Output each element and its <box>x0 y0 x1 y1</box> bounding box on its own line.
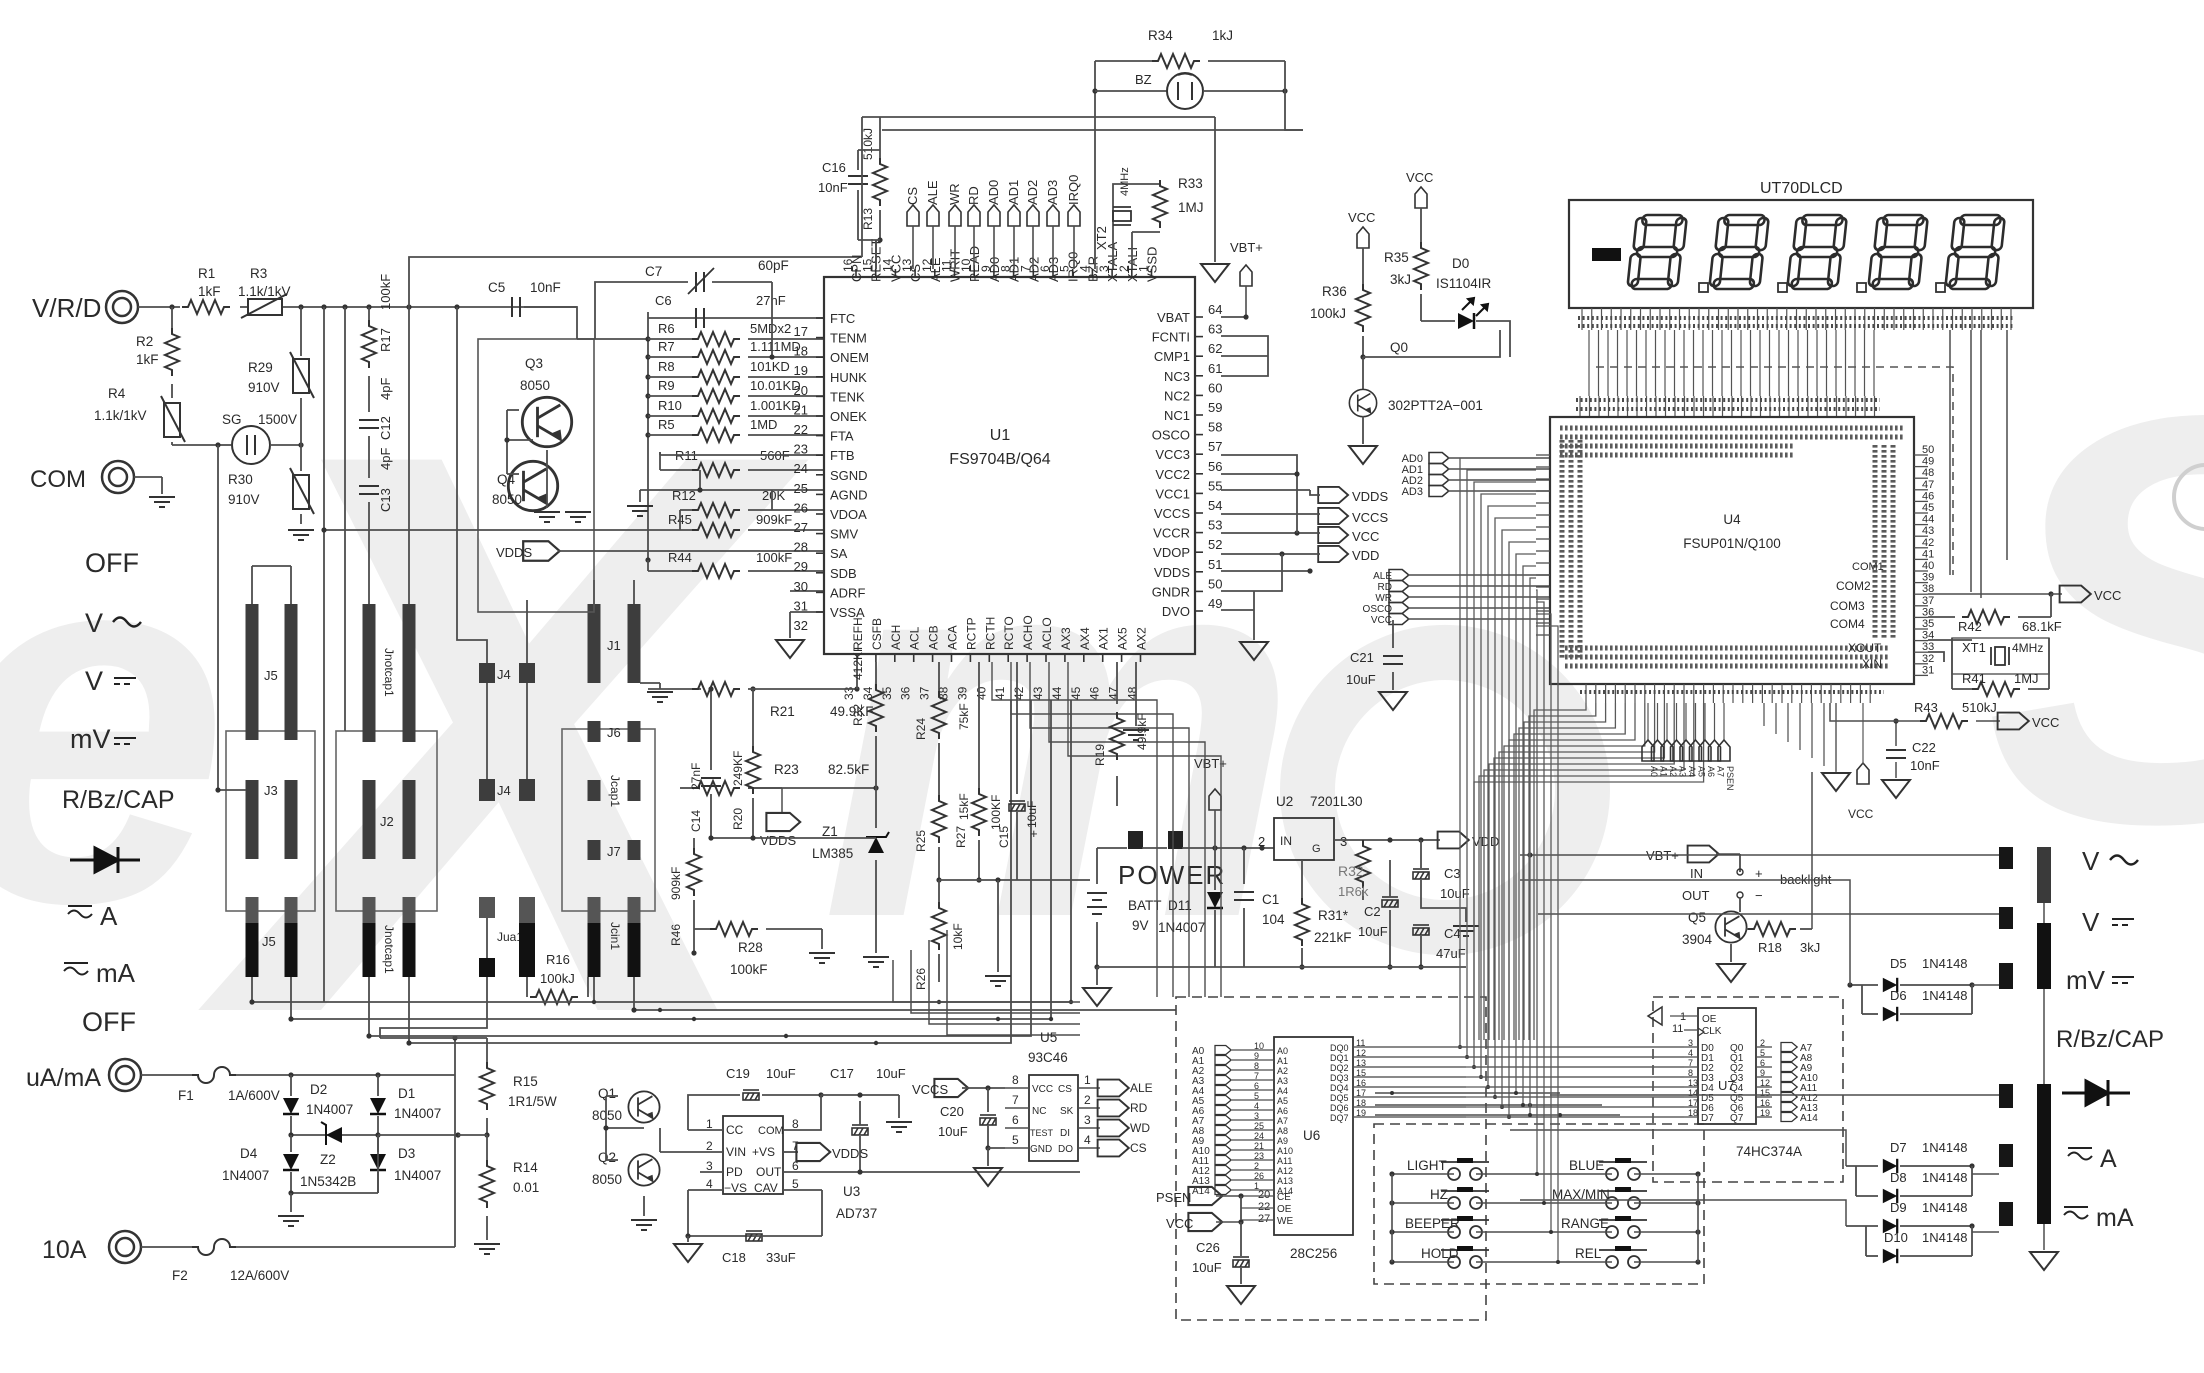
svg-text:412KF: 412KF <box>851 645 865 680</box>
U7 pin D3 <box>1684 1076 1698 1078</box>
svg-text:WD: WD <box>1130 1121 1150 1135</box>
wire DVO <box>1221 609 1254 611</box>
flag VCC mid2 <box>1415 187 1427 208</box>
U1 pin 27 VDOA <box>816 513 824 515</box>
switch wafer outline J6/Jcap1/J7 group <box>562 729 655 911</box>
bus rail 1 <box>252 700 1071 1002</box>
flag VDD power <box>1438 832 1469 849</box>
svg-text:28C256: 28C256 <box>1290 1246 1337 1261</box>
dashed box around U7 <box>1653 997 1843 1182</box>
svg-text:D9: D9 <box>1890 1200 1907 1215</box>
svg-text:2: 2 <box>706 1139 713 1153</box>
flags AD0-AD3 <box>1429 453 1449 464</box>
svg-text:J2: J2 <box>380 814 394 829</box>
svg-text:VDDS: VDDS <box>832 1146 868 1161</box>
svg-text:10nF: 10nF <box>530 280 561 295</box>
resistor R45 <box>660 529 692 531</box>
svg-text:D0: D0 <box>1452 256 1469 271</box>
svg-text:45: 45 <box>1069 686 1083 700</box>
LCD body <box>1569 200 2033 308</box>
svg-text:17: 17 <box>1688 1098 1698 1108</box>
svg-text:3kJ: 3kJ <box>1390 272 1411 287</box>
svg-text:REL: REL <box>1575 1246 1602 1261</box>
svg-text:A2: A2 <box>1277 1066 1288 1076</box>
wire XT1 loop <box>1951 638 1953 689</box>
svg-text:DO: DO <box>1058 1144 1073 1155</box>
wire drop x345 <box>344 307 346 731</box>
svg-text:32: 32 <box>1922 653 1934 665</box>
svg-text:VDDS: VDDS <box>1154 565 1190 580</box>
resistor R33 <box>1153 180 1167 228</box>
svg-text:C5: C5 <box>488 280 505 295</box>
wire button row <box>1392 1231 1454 1233</box>
svg-text:11: 11 <box>1672 1023 1683 1035</box>
U7 pin Q1 <box>1756 1056 1772 1058</box>
svg-text:40: 40 <box>974 686 988 700</box>
U1 pin 54 VCCS <box>1195 512 1203 514</box>
svg-text:VCC: VCC <box>1848 807 1874 821</box>
svg-text:7201L30: 7201L30 <box>1310 794 1363 809</box>
U1 pin 24 FTB <box>816 454 824 456</box>
bus rail 2 <box>291 700 1051 1019</box>
svg-text:G: G <box>1312 843 1321 855</box>
svg-text:FTC: FTC <box>830 311 855 326</box>
svg-text:AD3: AD3 <box>1402 486 1423 498</box>
svg-text:WE: WE <box>1277 1216 1293 1227</box>
svg-text:VCCS: VCCS <box>1154 506 1190 521</box>
flag ALE <box>927 205 939 226</box>
varistor R30 <box>300 445 302 471</box>
svg-text:30: 30 <box>794 579 808 594</box>
U1 pin 26 AGND <box>816 493 824 495</box>
svg-text:VBT+: VBT+ <box>1230 240 1263 255</box>
svg-text:FSUP01N/Q100: FSUP01N/Q100 <box>1683 536 1781 551</box>
wire CE OE link <box>1240 1196 1242 1220</box>
resistor R46 <box>693 838 695 852</box>
svg-text:R41: R41 <box>1962 671 1986 686</box>
svg-text:C21: C21 <box>1350 650 1374 665</box>
svg-text:56: 56 <box>1208 459 1222 474</box>
svg-text:10uF: 10uF <box>876 1066 906 1081</box>
U1 pin 64 VBAT <box>1195 316 1203 318</box>
resistor R27 <box>978 662 980 792</box>
flag OE left arrow <box>1648 1007 1662 1025</box>
svg-text:62: 62 <box>1208 341 1222 356</box>
ground right bars <box>2030 1252 2058 1270</box>
resistor R28 <box>694 928 710 930</box>
svg-text:1N4007: 1N4007 <box>394 1168 441 1183</box>
svg-text:mA: mA <box>2096 1204 2134 1232</box>
flag VDDS to SA <box>523 541 559 561</box>
U1 pin 23 FTA <box>816 435 824 437</box>
svg-text:VCC3: VCC3 <box>1155 447 1190 462</box>
crystal XT2 <box>1112 200 1114 269</box>
svg-text:R6: R6 <box>658 321 675 336</box>
flag PSEN <box>1188 1187 1222 1205</box>
svg-text:R/Bz/CAP: R/Bz/CAP <box>2056 1026 2164 1053</box>
U1 pin 9 AD0 <box>993 269 995 277</box>
svg-text:R29: R29 <box>248 360 273 375</box>
svg-text:XOUT: XOUT <box>1848 641 1882 655</box>
U1 pin 59 NC1 <box>1195 414 1203 416</box>
wire long bus rows DQ <box>1365 1046 1684 1048</box>
LCD digit 4 <box>1868 215 1928 289</box>
U1 pin 25 SGND <box>816 474 824 476</box>
svg-text:VDOP: VDOP <box>1153 545 1190 560</box>
svg-text:75kF: 75kF <box>957 703 971 730</box>
resistor R20 <box>752 689 754 750</box>
svg-text:Jnotcap1: Jnotcap1 <box>382 925 396 974</box>
wire button row <box>1392 1261 1454 1263</box>
svg-text:HZ: HZ <box>1430 1187 1448 1202</box>
right switch long bars <box>2037 847 2051 903</box>
svg-text:Z1: Z1 <box>822 824 838 839</box>
svg-text:60pF: 60pF <box>758 258 789 273</box>
wire LCD right drops <box>1970 330 1972 592</box>
U4 bottom comb <box>1585 684 1587 703</box>
svg-text:910V: 910V <box>248 380 280 395</box>
U1 pin 6 AD3 <box>1052 269 1054 277</box>
svg-text:23: 23 <box>1254 1151 1264 1161</box>
svg-text:C13: C13 <box>378 488 393 512</box>
rail junction dots <box>592 1000 596 1004</box>
svg-text:0.01: 0.01 <box>513 1180 539 1195</box>
svg-text:5: 5 <box>792 1177 799 1191</box>
bus rail 4 <box>409 700 1011 1043</box>
U7 pin D6 <box>1684 1106 1698 1108</box>
svg-text:DQ5: DQ5 <box>1330 1093 1349 1103</box>
svg-text:VCC: VCC <box>2032 715 2059 730</box>
svg-text:C15: C15 <box>997 826 1011 848</box>
svg-text:Q2: Q2 <box>598 1150 616 1165</box>
svg-text:14: 14 <box>1688 1088 1698 1098</box>
svg-text:12: 12 <box>1356 1048 1366 1058</box>
U7 pin D1 <box>1684 1056 1698 1058</box>
svg-text:AD737: AD737 <box>836 1206 877 1221</box>
svg-text:221kF: 221kF <box>1314 930 1352 945</box>
svg-text:1.1k/1kV: 1.1k/1kV <box>238 284 291 299</box>
svg-text:Q3: Q3 <box>525 356 543 371</box>
ground AGND <box>640 489 700 491</box>
svg-text:68.1kF: 68.1kF <box>2022 619 2062 634</box>
svg-text:15kF: 15kF <box>957 793 971 820</box>
svg-text:R15: R15 <box>513 1074 538 1089</box>
svg-text:53: 53 <box>1208 518 1222 533</box>
svg-text:+: + <box>1755 866 1763 881</box>
svg-text:A6: A6 <box>1706 766 1716 777</box>
wire D9 feed <box>1520 1200 1846 1226</box>
power switch contacts <box>1128 831 1143 849</box>
svg-text:5: 5 <box>1760 1048 1765 1058</box>
svg-text:A10: A10 <box>1277 1146 1293 1156</box>
svg-text:R32: R32 <box>1338 863 1364 879</box>
flag VDDS right <box>1221 570 1310 572</box>
box around Q3/Q4 <box>478 339 594 612</box>
resistor R36 <box>1362 248 1364 288</box>
svg-text:CE: CE <box>1277 1192 1291 1203</box>
U5 pin stubs <box>1005 1087 1029 1089</box>
svg-text:100kJ: 100kJ <box>1310 306 1346 321</box>
capacitor C20 <box>987 1088 989 1112</box>
wire Q3-Q4 link <box>507 409 519 411</box>
svg-text:U2: U2 <box>1276 794 1293 809</box>
svg-text:1500V: 1500V <box>258 412 297 427</box>
wire COM to ground <box>134 476 162 478</box>
svg-text:AD2: AD2 <box>1025 180 1040 205</box>
svg-text:R2: R2 <box>136 334 153 349</box>
svg-text:37: 37 <box>1922 595 1934 607</box>
svg-text:F2: F2 <box>172 1268 188 1283</box>
svg-text:VCC: VCC <box>2094 588 2121 603</box>
svg-text:A0: A0 <box>1649 766 1659 777</box>
svg-text:J7: J7 <box>607 844 621 859</box>
svg-text:OFF: OFF <box>85 548 139 578</box>
U1 pin 42 ACHO <box>1026 654 1028 662</box>
svg-text:PD: PD <box>726 1165 743 1179</box>
svg-text:510kJ: 510kJ <box>861 128 875 160</box>
svg-text:PSEN: PSEN <box>1725 766 1735 791</box>
U1 pin 30 SDB <box>816 572 824 574</box>
svg-text:Z2: Z2 <box>320 1152 336 1167</box>
svg-text:41: 41 <box>993 686 1007 700</box>
svg-text:NC: NC <box>1032 1106 1046 1117</box>
svg-text:OSCO: OSCO <box>1363 604 1393 615</box>
bus rail 3 <box>369 700 1031 1036</box>
ground under bridge <box>290 1193 292 1212</box>
svg-text:XT2: XT2 <box>1094 226 1109 250</box>
svg-text:1A/600V: 1A/600V <box>228 1088 280 1103</box>
buzzer BZ <box>1095 90 1167 92</box>
svg-text:R5: R5 <box>658 417 675 432</box>
svg-text:ACLO: ACLO <box>1040 617 1054 650</box>
ground near XTALI <box>1201 264 1229 282</box>
svg-text:3904: 3904 <box>1682 932 1713 947</box>
wire D0 to right <box>1476 321 1510 357</box>
svg-text:4MHz: 4MHz <box>2012 641 2043 655</box>
ground under Q5 <box>1730 944 1732 962</box>
dashed box around U6 <box>1176 997 1486 1320</box>
flag CS <box>907 205 919 226</box>
svg-text:GNDR: GNDR <box>1152 584 1190 599</box>
svg-text:OE: OE <box>1702 1014 1717 1025</box>
resistor R8 <box>645 374 650 379</box>
svg-text:A3: A3 <box>1277 1076 1288 1086</box>
svg-text:SK: SK <box>1060 1106 1074 1117</box>
svg-text:IS1104IR: IS1104IR <box>1436 276 1492 291</box>
svg-text:49: 49 <box>1922 456 1934 468</box>
wire bridge bottom <box>291 1192 378 1194</box>
wire long bar link <box>2043 903 2045 923</box>
svg-text:27: 27 <box>794 520 808 535</box>
svg-text:A13: A13 <box>1277 1176 1293 1186</box>
flag VCC mid1 <box>1357 227 1369 248</box>
decorative watermark <box>0 286 2204 1180</box>
flags ALE RD WD CS at U5 <box>1098 1080 1129 1097</box>
wire reset to pin15 <box>858 239 880 241</box>
svg-text:10uF: 10uF <box>766 1066 796 1081</box>
svg-text:COM3: COM3 <box>1830 599 1865 613</box>
svg-text:C2: C2 <box>1364 904 1381 919</box>
svg-text:46: 46 <box>1088 686 1102 700</box>
wire buzzer left <box>1094 61 1096 269</box>
svg-text:AD0: AD0 <box>986 180 1001 205</box>
svg-text:1N4148: 1N4148 <box>1922 1200 1968 1215</box>
svg-text:44: 44 <box>1050 686 1064 700</box>
wire C7 to ONEM <box>771 282 773 357</box>
U1 pin 20 HUNK <box>816 376 824 378</box>
svg-text:OFF: OFF <box>82 1007 136 1037</box>
svg-text:AX1: AX1 <box>1097 627 1111 650</box>
dashed route <box>1596 367 1953 575</box>
switch wafer outline J2 group <box>336 731 437 911</box>
flag AD0 <box>988 205 1000 226</box>
svg-text:R34: R34 <box>1148 28 1173 43</box>
svg-text:ADRF: ADRF <box>830 585 865 600</box>
svg-text:12A/600V: 12A/600V <box>230 1268 289 1283</box>
svg-text:COM4: COM4 <box>1830 617 1865 631</box>
svg-text:VBT+: VBT+ <box>1194 756 1227 771</box>
svg-text:24: 24 <box>794 461 808 476</box>
svg-text:1R6k: 1R6k <box>1338 884 1369 899</box>
svg-text:1N4148: 1N4148 <box>1922 1230 1968 1245</box>
U1 pin 14 VCC <box>894 269 896 277</box>
wire AX ground <box>1135 662 1137 726</box>
svg-text:AX3: AX3 <box>1059 627 1073 650</box>
flag AD3 <box>1047 205 1059 226</box>
svg-text:3: 3 <box>1688 1038 1693 1048</box>
svg-text:VCC: VCC <box>1352 529 1379 544</box>
U7 pin Q0 <box>1756 1046 1772 1048</box>
svg-text:43: 43 <box>1031 686 1045 700</box>
svg-text:R25: R25 <box>914 830 928 852</box>
wire input node <box>138 306 180 308</box>
svg-text:V: V <box>2082 907 2100 937</box>
wire U3 area cross <box>660 1151 688 1153</box>
svg-text:909kF: 909kF <box>756 512 792 527</box>
svg-text:D8: D8 <box>1890 1170 1907 1185</box>
svg-text:RANGE: RANGE <box>1561 1216 1609 1231</box>
svg-text:R19: R19 <box>1093 744 1107 766</box>
svg-text:20: 20 <box>1258 1189 1270 1201</box>
wire button left bus <box>1391 1174 1393 1262</box>
svg-text:VCCR: VCCR <box>1153 526 1190 541</box>
crystal XT1 box <box>1952 638 2049 674</box>
svg-text:TENM: TENM <box>830 331 867 346</box>
svg-text:ALE: ALE <box>1130 1081 1153 1095</box>
svg-text:A11: A11 <box>1277 1156 1292 1166</box>
wire power rail to left ground <box>1096 967 1098 985</box>
ground triangle VSSA <box>776 640 804 658</box>
flag VBT+ power <box>1209 789 1221 810</box>
wire main node to CPN <box>409 257 862 307</box>
wire ADRF stub <box>790 590 824 592</box>
switch contact Jnotcap1 top bars <box>363 604 376 742</box>
svg-text:45: 45 <box>1922 502 1934 514</box>
varistor R3 <box>241 294 287 318</box>
svg-text:R10: R10 <box>658 398 682 413</box>
transistor Q0 <box>1362 357 1364 390</box>
svg-text:D7: D7 <box>1701 1113 1714 1124</box>
resistor R23 <box>748 787 782 789</box>
svg-text:49: 49 <box>1208 596 1222 611</box>
wire Z1 bottom <box>875 860 877 953</box>
IC U4 comb top <box>1579 396 1581 417</box>
capacitor C15 <box>1016 662 1018 794</box>
resistor R42 <box>1928 616 1955 618</box>
svg-text:9V: 9V <box>1132 918 1149 933</box>
svg-text:VCC: VCC <box>1032 1084 1053 1095</box>
switch contact J3 bars <box>246 780 259 859</box>
svg-text:8: 8 <box>1254 1061 1259 1071</box>
svg-text:1kF: 1kF <box>198 284 221 299</box>
resistor R12 <box>680 509 692 511</box>
svg-text:25: 25 <box>794 481 808 496</box>
resistor R2 <box>171 307 173 328</box>
ground at J1 <box>640 682 660 684</box>
svg-text:32: 32 <box>794 618 808 633</box>
svg-text:47uF: 47uF <box>1436 946 1466 961</box>
svg-text:Jcap1: Jcap1 <box>608 775 622 807</box>
svg-text:R17: R17 <box>378 328 393 352</box>
svg-text:Q7: Q7 <box>1730 1113 1744 1124</box>
svg-text:1kF: 1kF <box>136 352 159 367</box>
svg-text:6: 6 <box>1254 1081 1259 1091</box>
svg-text:35: 35 <box>1922 618 1934 630</box>
svg-text:SA: SA <box>830 546 848 561</box>
svg-text:1N4148: 1N4148 <box>1922 1170 1968 1185</box>
svg-text:1R1/5W: 1R1/5W <box>508 1094 557 1109</box>
svg-text:ACH: ACH <box>889 625 903 650</box>
svg-text:OUT: OUT <box>756 1165 782 1179</box>
resistor R1 <box>182 300 230 314</box>
wire FTB row <box>660 454 824 456</box>
svg-text:VSSD: VSSD <box>1145 247 1160 282</box>
switch contact R16 bar <box>519 897 535 923</box>
svg-text:CMP1: CMP1 <box>1154 349 1190 364</box>
U1 pin 52 VDOP <box>1195 551 1203 553</box>
svg-text:R33: R33 <box>1178 176 1203 191</box>
svg-text:8: 8 <box>792 1117 799 1131</box>
svg-text:ACHO: ACHO <box>1021 615 1035 650</box>
wire LCD to U4 vertical band <box>1588 330 1590 396</box>
U7 pin Q6 <box>1756 1106 1772 1108</box>
flag VCC right <box>1318 527 1348 543</box>
switch contact J5 bottom bars <box>246 897 259 923</box>
svg-text:A0: A0 <box>1277 1046 1288 1056</box>
svg-text:36: 36 <box>899 686 913 700</box>
svg-text:uA/mA: uA/mA <box>26 1064 101 1092</box>
U1 pin 10 READ <box>973 269 975 277</box>
wire C5 corner <box>524 307 577 339</box>
resistor R31 <box>1301 860 1303 904</box>
ground under C21 <box>1379 692 1407 710</box>
wire +VS to C17 <box>820 1095 821 1130</box>
svg-text:8: 8 <box>1688 1068 1693 1078</box>
capacitor C16 <box>857 150 859 170</box>
svg-text:R21: R21 <box>770 704 795 719</box>
wire button row <box>1392 1202 1454 1204</box>
wire REFH drop <box>856 662 858 689</box>
svg-text:10kF: 10kF <box>951 923 965 950</box>
svg-text:R18: R18 <box>1758 940 1782 955</box>
flag VCCS right <box>1318 508 1348 524</box>
svg-text:CSFB: CSFB <box>870 618 884 650</box>
svg-text:47: 47 <box>1107 686 1121 700</box>
svg-text:15: 15 <box>1356 1068 1366 1078</box>
wire VDOP chain <box>1221 554 1282 591</box>
svg-text:64: 64 <box>1208 302 1222 317</box>
zener Z1 LM385 <box>866 832 889 853</box>
